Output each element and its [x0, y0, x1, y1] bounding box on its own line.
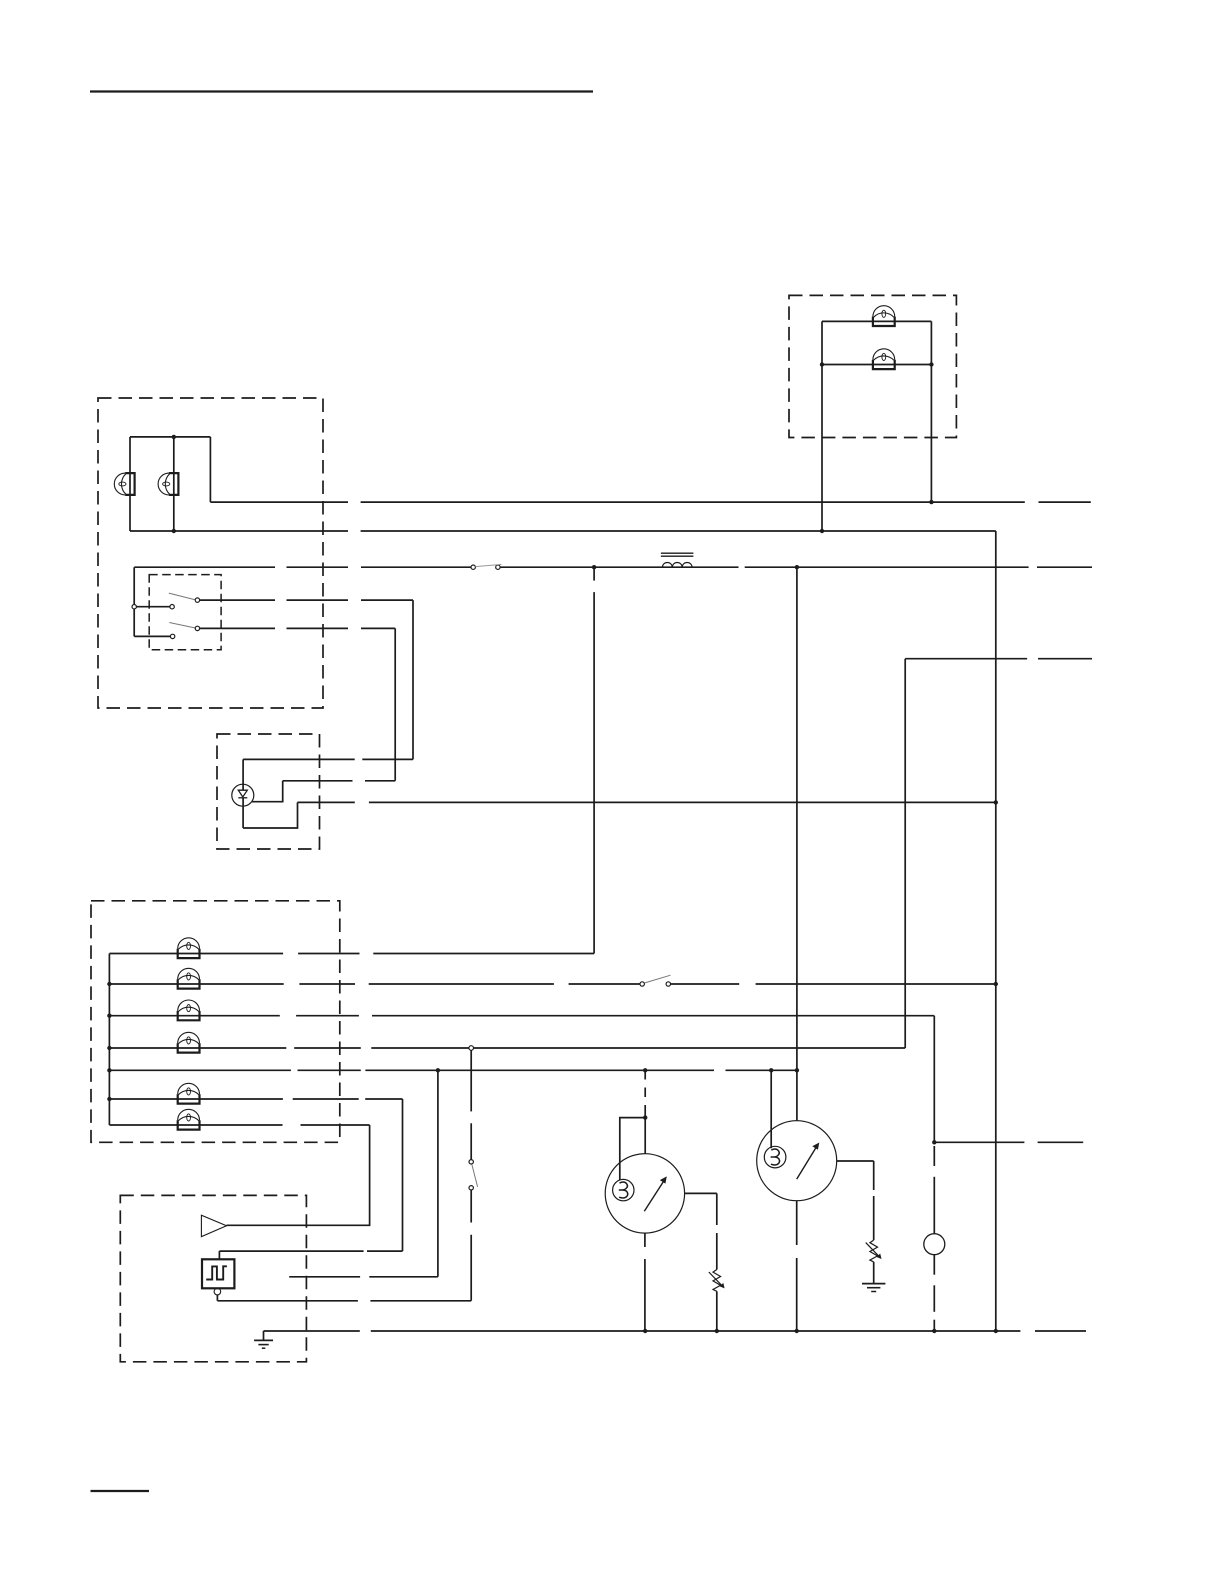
bus y567: [134, 566, 275, 568]
row1 wire: [109, 953, 283, 955]
wire gauge G1 bottom: [644, 1233, 646, 1247]
row2 wire: [109, 983, 283, 985]
node: [932, 1140, 936, 1144]
bus y659: [905, 658, 1027, 660]
dashed box: indicator diode unit: [217, 734, 320, 849]
row5 wire: [109, 1069, 291, 1071]
gauge G2: [757, 1121, 837, 1201]
wire lamp T2 row: [822, 364, 931, 366]
bottom-left rule: [91, 1490, 150, 1492]
wire gauge G2 right: [837, 1160, 874, 1162]
pulse glyph: [206, 1266, 227, 1279]
wire: [209, 437, 211, 502]
bus y1301: [217, 1300, 358, 1302]
switch S2 blade: [169, 593, 197, 600]
bus y502: [210, 501, 348, 503]
wire sender hook: [620, 1118, 645, 1180]
node: [994, 800, 998, 804]
ground: [862, 1283, 885, 1285]
wire sender feed: [770, 1070, 772, 1148]
switch S4 blade: [644, 975, 670, 983]
switch S1 blade: [475, 564, 501, 566]
gauge G1: [605, 1154, 684, 1233]
wire riser row4 switch: [470, 1050, 472, 1111]
wire diode right step: [252, 781, 283, 802]
wire right trunk: [995, 531, 997, 1331]
wire gauge G1 right: [685, 1192, 717, 1194]
wire headlamp top: [130, 436, 210, 438]
lamp socket L3: [924, 1234, 945, 1255]
gauge G2 feed: [796, 567, 798, 1120]
terminal: [132, 605, 136, 609]
bus y1142: [934, 1141, 1024, 1143]
node: [436, 1068, 440, 1072]
wire ground stub: [263, 1331, 265, 1340]
wire: [470, 1190, 472, 1222]
node: [643, 1115, 647, 1119]
wire: [644, 1118, 646, 1154]
bus y628: [200, 627, 275, 629]
row4 wire: [109, 1047, 286, 1049]
lamp C3: [178, 1000, 200, 1020]
switch S5 blade: [472, 1164, 478, 1187]
bus y781: [283, 780, 353, 782]
dashed box: flasher unit (bottom left): [120, 1195, 306, 1361]
row7 wire: [109, 1124, 282, 1126]
dashed box: dimmer switch sub-box: [149, 575, 221, 650]
wire dimmer feed: [133, 567, 135, 636]
node: [929, 362, 933, 366]
node: [172, 529, 176, 533]
wire: [821, 321, 823, 531]
contact: [195, 598, 199, 602]
wire gauge G2 bottom: [796, 1201, 798, 1245]
bus y531: [130, 530, 348, 532]
row3 wire: [109, 1015, 279, 1017]
buzzer triangle: [201, 1215, 226, 1236]
contact: [170, 634, 174, 638]
lamp C2: [178, 968, 200, 988]
wire: [136, 606, 170, 608]
wire diode top: [242, 759, 244, 790]
wire lamp socket feed: [933, 1146, 935, 1166]
lamp T2: [873, 349, 895, 369]
wire diode bottom step: [243, 802, 297, 828]
wire: [173, 437, 175, 531]
terminal: [469, 1046, 474, 1051]
dashed box: lamp cluster unit: [91, 901, 340, 1143]
terminal: [214, 1288, 221, 1295]
wire row1 riser: [593, 567, 595, 580]
node: [929, 500, 933, 504]
wire: [933, 1255, 935, 1275]
wire row7 dropper: [227, 1125, 370, 1225]
lamp L2: [158, 473, 178, 495]
needle: [644, 1180, 664, 1211]
resistor R1: [709, 1270, 725, 1292]
node: [769, 1068, 773, 1072]
diode D1: [232, 784, 254, 806]
node: [795, 1068, 799, 1072]
bus y1331 (ground bus): [264, 1330, 360, 1332]
wire: [242, 798, 244, 828]
lamp C5: [178, 1083, 200, 1103]
resistor R2: [866, 1240, 882, 1262]
contact: [195, 626, 199, 630]
node: [643, 1068, 647, 1072]
switch S3 blade: [169, 623, 197, 629]
switch S4 contacts: [640, 982, 644, 986]
wire: [716, 1291, 718, 1331]
wire lamp T1 row: [822, 320, 931, 322]
title rule: [90, 90, 593, 92]
dashed box: headlamp unit (left): [98, 398, 323, 708]
wire: [930, 321, 932, 502]
contact: [170, 605, 174, 609]
node: [795, 565, 799, 569]
wire: [216, 1295, 218, 1301]
bus y1251: [219, 1250, 363, 1252]
node: [820, 362, 824, 366]
gauge G1 feed: [644, 1070, 646, 1079]
wire row3 dropper: [933, 1016, 935, 1143]
wire: [394, 628, 396, 780]
node: [172, 435, 176, 439]
ground: [254, 1339, 273, 1341]
lamp L1: [114, 473, 134, 495]
node: [994, 982, 998, 986]
wire: [873, 1262, 875, 1284]
bus y600: [200, 599, 275, 601]
switch S1 contacts: [471, 565, 475, 569]
lamp T1: [873, 306, 895, 326]
cluster left bus: [108, 954, 110, 1126]
inductor coil: [662, 563, 692, 568]
wire: [134, 635, 170, 637]
bus y1277: [289, 1276, 360, 1278]
row6 wire: [109, 1098, 283, 1100]
wire: [412, 600, 414, 759]
wire row6 dropper: [402, 1099, 404, 1251]
lamp C1: [178, 938, 200, 958]
bus y759: [243, 758, 355, 760]
pulse generator box: [202, 1259, 234, 1288]
dashed box: front lamps unit (top right): [789, 295, 956, 437]
switch S5 contacts: [469, 1160, 473, 1164]
wire riser to row5: [437, 1070, 439, 1277]
needle: [797, 1147, 817, 1180]
wire row4 riser: [904, 659, 906, 1048]
lamp C4: [178, 1032, 200, 1052]
node: [592, 565, 596, 569]
node: [820, 529, 824, 533]
bus y802: [298, 801, 355, 803]
inductor core bars: [661, 552, 694, 554]
wire pulse top: [218, 1251, 220, 1259]
wire: [129, 437, 131, 531]
lamp C6: [178, 1109, 200, 1129]
